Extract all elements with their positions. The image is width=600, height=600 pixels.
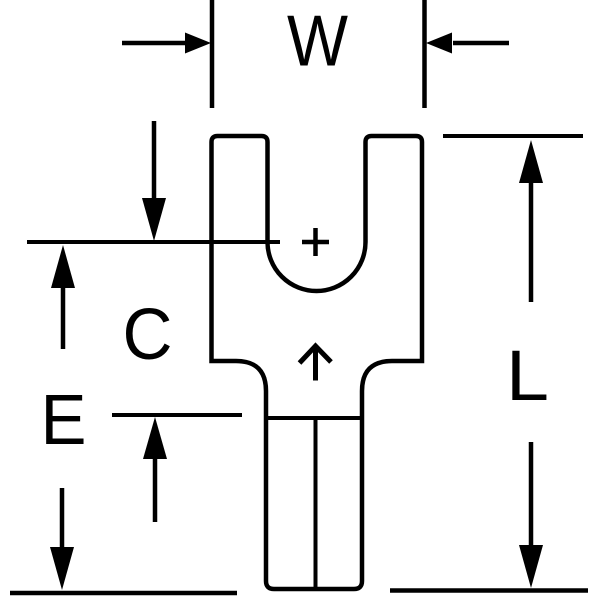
svg-text:W: W (287, 2, 348, 82)
svg-text:C: C (123, 295, 173, 375)
svg-text:L: L (506, 337, 549, 416)
svg-text:E: E (41, 381, 87, 460)
